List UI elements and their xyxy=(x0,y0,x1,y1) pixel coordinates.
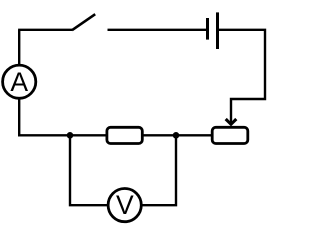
node: left junction dot xyxy=(67,132,74,139)
wire: switch right contact to battery negative plate xyxy=(108,29,207,31)
voltmeter V (circle) xyxy=(108,189,141,222)
resistor R (box) xyxy=(107,127,142,143)
wire: right node to resistor right terminal xyxy=(143,134,177,136)
wire: resistor left terminal to left node xyxy=(70,134,107,136)
wire: rheostat left terminal to right node xyxy=(176,134,212,136)
rheostat RP (box) xyxy=(212,127,248,143)
wire: battery to top-right corner, down and step to rheostat slider xyxy=(219,30,265,124)
arrowhead of rheostat slider xyxy=(225,118,238,127)
battery B1 short plate (negative) xyxy=(206,18,209,40)
voltmeter label V xyxy=(116,190,134,220)
svg-text:V: V xyxy=(116,190,134,220)
svg-text:A: A xyxy=(10,67,28,97)
wire: right node down to voltmeter loop bottom-right xyxy=(141,135,176,205)
wire: top horizontal from corner to switch pivot xyxy=(18,29,72,31)
ammeter A (circle) xyxy=(3,65,36,98)
switch S1 (open blade) xyxy=(72,14,95,30)
node: right junction dot xyxy=(173,132,180,139)
wire: left vertical from top-left corner to ammeter top xyxy=(18,30,20,65)
wire: left node down to voltmeter loop bottom-left xyxy=(70,135,108,205)
ammeter label A xyxy=(10,67,28,97)
wire: left node to ammeter branch (bottom-left corner) xyxy=(19,98,70,135)
battery B1 long plate (positive) xyxy=(216,12,219,49)
